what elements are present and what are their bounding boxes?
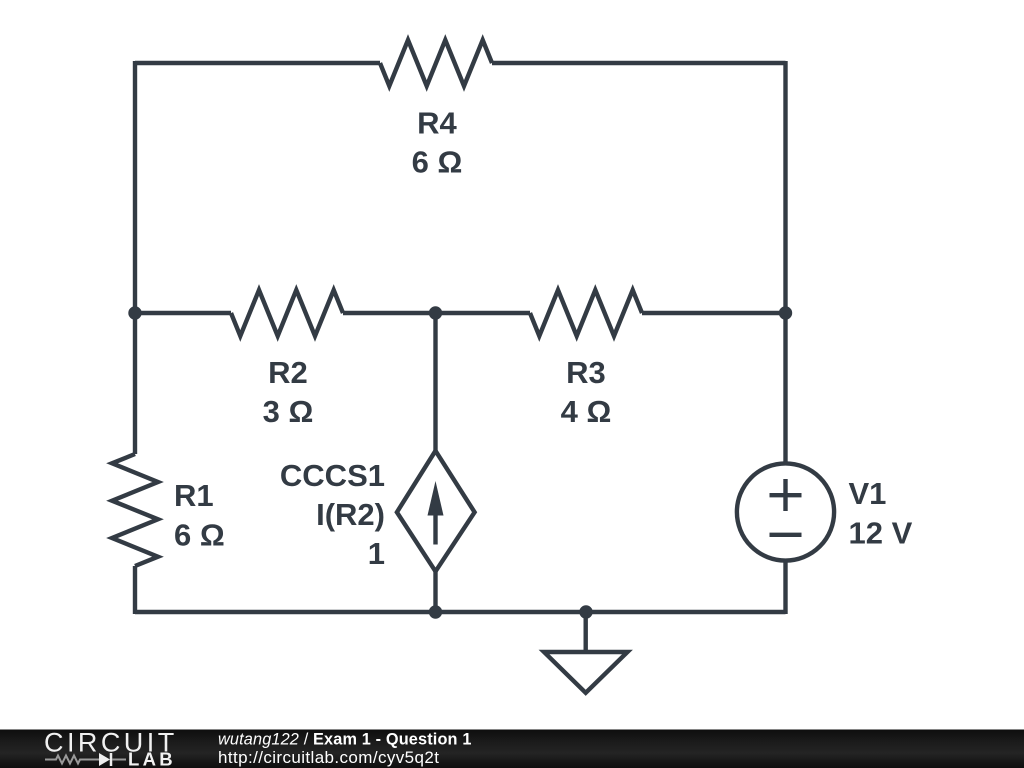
CCCS1 arrow head	[428, 481, 444, 516]
V1 minus sign	[770, 533, 802, 537]
svg-text:4 Ω: 4 Ω	[561, 394, 612, 429]
node junction left-middle	[128, 306, 141, 319]
node junction right-middle	[779, 306, 792, 319]
resistor R1	[112, 454, 158, 566]
V1 plus sign	[770, 479, 802, 511]
svg-text:CCCS1: CCCS1	[280, 458, 385, 493]
logo diode cathode	[110, 753, 113, 766]
wire bottom	[135, 610, 786, 614]
footer bar	[0, 730, 1024, 768]
node junction CCCS bottom	[429, 605, 442, 618]
logo wire after diode	[112, 759, 126, 761]
svg-text:LAB: LAB	[128, 749, 176, 768]
resistor R2	[231, 290, 343, 336]
svg-text:3 Ω: 3 Ω	[263, 394, 314, 429]
svg-text:R4: R4	[417, 106, 457, 141]
logo resistor squiggle	[45, 756, 99, 764]
svg-text:http://circuitlab.com/cyv5q2t: http://circuitlab.com/cyv5q2t	[218, 748, 439, 767]
node junction ground	[579, 605, 592, 618]
wire top-left segment	[135, 61, 380, 65]
svg-text:I(R2): I(R2)	[316, 497, 385, 532]
wire CCCS1 bottom stub	[433, 571, 437, 612]
CCCS1 arrow shaft	[433, 505, 437, 545]
node junction center-middle	[429, 306, 442, 319]
wire right lower	[783, 561, 787, 614]
ground stub wire	[584, 612, 588, 652]
wire left lower	[133, 566, 137, 614]
logo diode	[99, 753, 110, 766]
svg-text:wutang122 / Exam 1 - Question: wutang122 / Exam 1 - Question 1	[218, 731, 472, 749]
ground symbol	[544, 652, 628, 693]
current source CCCS1 diamond	[397, 451, 475, 572]
svg-text:R1: R1	[174, 478, 214, 513]
voltage source V1	[737, 463, 834, 560]
wire right upper	[783, 61, 787, 463]
wire top-right segment	[492, 61, 786, 65]
svg-text:6 Ω: 6 Ω	[174, 518, 225, 553]
resistor R3	[530, 290, 642, 336]
svg-text:R2: R2	[268, 355, 308, 390]
svg-text:6 Ω: 6 Ω	[412, 145, 463, 180]
wire CCCS1 top stub	[433, 313, 437, 452]
svg-text:12 V: 12 V	[849, 516, 913, 551]
svg-text:R3: R3	[566, 355, 606, 390]
wire left upper	[133, 61, 137, 454]
wire middle-right segment	[642, 311, 786, 315]
svg-text:V1: V1	[849, 476, 887, 511]
wire middle-left segment	[135, 311, 231, 315]
svg-text:1: 1	[368, 536, 385, 571]
resistor R4	[380, 40, 492, 86]
wire middle-center segment	[343, 311, 530, 315]
